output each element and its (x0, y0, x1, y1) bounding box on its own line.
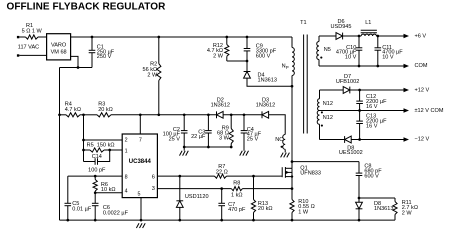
wire N12 to D8 (320, 139, 345, 141)
node C12-C13 junction (358, 109, 361, 112)
diode D7 (336, 74, 359, 94)
svg-text:COM: COM (415, 63, 428, 69)
svg-text:1 kΩ: 1 kΩ (231, 192, 243, 198)
capacitor C13 (356, 111, 387, 140)
svg-text:1N3612: 1N3612 (211, 103, 230, 109)
terminal -12V (404, 136, 430, 142)
svg-text:10 V: 10 V (382, 55, 394, 61)
wire tap to R3 (84, 114, 98, 116)
svg-text:10 kΩ: 10 kΩ (101, 187, 116, 193)
svg-text:470 pF: 470 pF (228, 207, 246, 213)
svg-text:2: 2 (125, 138, 128, 144)
node N12 upper phase dot (321, 111, 323, 113)
resistor R3 (97, 102, 113, 117)
svg-text:10 V: 10 V (345, 55, 357, 61)
node R12 top (225, 36, 228, 39)
svg-text:20 kΩ: 20 kΩ (258, 206, 273, 212)
svg-text:+6 V: +6 V (415, 34, 427, 40)
svg-text:±12 V COM: ±12 V COM (415, 108, 444, 114)
pin 4 label (125, 188, 128, 194)
wire D7 to +12V (350, 89, 404, 91)
resistor R2 (143, 37, 161, 115)
node source junction (291, 175, 293, 177)
svg-text:4: 4 (125, 188, 128, 194)
bridge rectifier VARO VM 68 (47, 34, 71, 60)
wire pin 7 drop (139, 115, 141, 134)
svg-text:600 V: 600 V (364, 174, 379, 180)
wire R1 left lead (19, 36, 25, 38)
wire D2 to D3 (223, 114, 262, 116)
svg-text:1N3613: 1N3613 (374, 206, 393, 212)
node C10 bottom (358, 65, 361, 68)
resistor R12 (207, 37, 229, 61)
capacitor C1 (89, 37, 115, 68)
capacitor C12 (356, 90, 387, 111)
node C3 bottom (207, 146, 210, 149)
resistor R11 (393, 198, 418, 220)
wire R7 to gate (227, 175, 283, 177)
node R2 top (157, 36, 160, 39)
capacitor C4 (241, 115, 262, 151)
capacitor C6 (92, 193, 129, 220)
svg-text:4.7 kΩ: 4.7 kΩ (65, 107, 81, 113)
diode D2 (211, 98, 230, 119)
transformer core T1 (300, 20, 307, 134)
wire R4 to tap (80, 114, 84, 116)
svg-text:USD1120: USD1120 (185, 194, 209, 200)
svg-text:3: 3 (152, 186, 155, 192)
wire COM line (319, 65, 404, 67)
svg-text:600 V: 600 V (256, 54, 271, 60)
svg-text:T1: T1 (300, 20, 306, 26)
node NC phase dot (281, 146, 283, 148)
resistor R4 (65, 102, 81, 117)
resistor R13 (251, 176, 272, 220)
wire pin 2 (84, 139, 123, 141)
svg-text:5: 5 (138, 191, 141, 197)
node drain-snubber junction (291, 160, 294, 163)
node R5 left junction (82, 149, 85, 152)
op-amp U1 UC3844 box (122, 134, 157, 198)
svg-text:N12: N12 (323, 101, 333, 107)
node source-sense junction (291, 187, 294, 190)
svg-text:8: 8 (125, 175, 128, 181)
resistor R6 (93, 176, 115, 193)
capacitor C14 (84, 150, 110, 173)
svg-text:7: 7 (139, 138, 142, 144)
winding N12 lower (317, 111, 333, 140)
svg-text:2 W: 2 W (402, 210, 413, 216)
pin 3 label (152, 186, 155, 192)
wire drain to C8 (292, 161, 359, 163)
capacitor C7 (218, 189, 246, 221)
svg-text:22 Ω: 22 Ω (216, 170, 228, 176)
transistor Q1 UFN833 (282, 162, 321, 189)
node C12 top (358, 89, 361, 92)
svg-text:VARO: VARO (51, 42, 67, 48)
wire D6 to L1 (343, 35, 362, 37)
capacitor C10 (336, 36, 362, 66)
wire left vertical bus (59, 68, 61, 221)
wire D3 to NC (269, 115, 286, 135)
diode D3 (256, 98, 275, 119)
node N12 lower phase dot (321, 125, 323, 127)
terminal +6V (404, 34, 427, 40)
svg-text:1N3612: 1N3612 (256, 103, 275, 109)
wire R12 bottom link (227, 60, 247, 62)
label 117 VAC (18, 44, 39, 50)
wire D4 to drain (247, 78, 292, 86)
wire +-12V COM line (320, 110, 404, 112)
svg-text:VM 68: VM 68 (51, 50, 67, 56)
node C6 ground (94, 219, 97, 222)
wire drain vertical (291, 76, 293, 168)
node R10 ground (291, 219, 294, 222)
ground under NC (281, 153, 290, 158)
svg-text:P: P (286, 65, 289, 70)
capacitor C2 (163, 115, 188, 147)
ground under C4 (240, 151, 249, 156)
wire ground bus (60, 219, 396, 221)
svg-text:117 VAC: 117 VAC (18, 44, 39, 50)
node C8-D5 junction (358, 197, 361, 200)
svg-text:16 V: 16 V (366, 104, 378, 110)
wire pin 8 (68, 175, 122, 177)
wire divider drop (83, 115, 85, 162)
svg-text:5 Ω 1 W: 5 Ω 1 W (22, 29, 43, 35)
diode USD1120 (176, 176, 208, 220)
resistor R7 (215, 164, 228, 178)
svg-text:UC3844: UC3844 (129, 159, 152, 165)
wire DC+ rail (71, 36, 292, 38)
node divider tap (82, 113, 85, 116)
svg-text:250 V: 250 V (97, 54, 112, 60)
node R5 right junction (108, 149, 111, 152)
wire row to R4 (60, 114, 67, 116)
svg-text:+12 V: +12 V (415, 88, 430, 94)
wire C2 ground stub (183, 147, 185, 151)
svg-text:1 W: 1 W (298, 209, 309, 215)
node C2 bottom (183, 146, 186, 149)
svg-text:R8: R8 (233, 180, 240, 186)
svg-text:UES1002: UES1002 (339, 150, 363, 156)
wire VCC ground bus (184, 146, 231, 148)
wire R3 to D2 (111, 114, 217, 116)
ground under C2 bus (180, 151, 189, 156)
node C9 top (246, 36, 249, 39)
svg-text:N5: N5 (324, 47, 331, 53)
terminal +12V (404, 88, 430, 94)
node clamp-drain junction (291, 85, 294, 88)
terminal +-12V COM (404, 108, 444, 114)
capacitor C5 (65, 176, 92, 220)
svg-text:100 pF: 100 pF (88, 167, 106, 173)
inductor L1 (361, 20, 377, 36)
svg-text:UFN833: UFN833 (300, 171, 321, 177)
node C2 top (183, 113, 186, 116)
node C7 top (220, 187, 223, 190)
svg-text:OFFLINE FLYBACK REGULATOR: OFFLINE FLYBACK REGULATOR (7, 2, 167, 13)
winding Np primary (282, 37, 295, 76)
svg-text:16 V: 16 V (366, 124, 378, 130)
terminal COM (404, 63, 428, 69)
wire pin 1 (110, 149, 123, 151)
wire pin 5 drop (140, 198, 142, 221)
svg-text:2 W: 2 W (213, 53, 224, 59)
wire NC to ground (284, 149, 286, 152)
node bridge negative junction (77, 66, 80, 69)
node C10 top (358, 35, 361, 38)
node VCC-row left junction (58, 113, 61, 116)
svg-text:1: 1 (125, 149, 128, 155)
resistor R5 (84, 142, 115, 152)
node C11 bottom (376, 65, 379, 68)
wire pin 3 line (157, 188, 231, 190)
svg-text:0.0022 µF: 0.0022 µF (103, 210, 129, 216)
winding N5 (317, 36, 331, 66)
wire C9 to D4 (246, 61, 248, 71)
node USD1120 top (178, 175, 181, 178)
node C13 bottom (358, 138, 361, 141)
pin 7 label (139, 138, 142, 144)
capacitor C8 (356, 162, 383, 198)
node C9 bottom junction (246, 60, 249, 63)
svg-text:20 kΩ: 20 kΩ (98, 107, 113, 113)
node N5 phase dot (320, 57, 322, 59)
svg-text:25 V: 25 V (169, 137, 181, 143)
node C7 ground (220, 219, 223, 222)
svg-text:N12: N12 (323, 115, 333, 121)
title OFFLINE FLYBACK REGULATOR (7, 2, 167, 13)
svg-text:25 V: 25 V (247, 137, 259, 143)
svg-text:22 µF: 22 µF (191, 134, 206, 140)
svg-text:0.01 µF: 0.01 µF (72, 206, 92, 212)
node R13 ground (252, 219, 255, 222)
wire AC lower to bridge (19, 54, 46, 56)
node R6-C6 junction (94, 191, 97, 194)
node D5 ground (358, 219, 361, 222)
winding NC (275, 135, 285, 150)
node R9 top (230, 113, 233, 116)
pin 1 label (125, 149, 128, 155)
node C5 ground (66, 219, 69, 222)
svg-text:NC: NC (275, 137, 283, 143)
node AC input terminal lower (17, 54, 19, 56)
svg-text:C14: C14 (92, 154, 102, 160)
wire N12 to D7 (320, 89, 344, 91)
wire bridge negative (71, 56, 78, 67)
pin 5 label (138, 191, 141, 197)
wire L1 to +6V (376, 35, 403, 37)
node R13 top (252, 175, 255, 178)
capacitor C3 (191, 115, 212, 147)
pin 2 label (125, 138, 128, 144)
node C3 top (207, 113, 210, 116)
svg-text:UFB1002: UFB1002 (336, 79, 359, 85)
node R2 bottom junction (157, 113, 160, 116)
wire pin 6 line (157, 175, 214, 177)
diode D8 (339, 136, 363, 156)
node USD1120 ground (178, 219, 181, 222)
node C4 top (243, 113, 246, 116)
diode D5 (356, 198, 394, 220)
node pin5 ground (140, 219, 143, 222)
wire negative bus (60, 67, 93, 69)
node C11 top (376, 35, 379, 38)
node pin2 junction (82, 139, 85, 142)
svg-text:2 W: 2 W (147, 72, 158, 78)
wire R8 to source (243, 188, 293, 190)
wire pin 4 (95, 192, 122, 194)
resistor R1 (22, 23, 43, 39)
winding N12 upper (318, 90, 333, 111)
wire N5 to D6 (319, 35, 336, 37)
resistor R8 (231, 180, 243, 198)
wire R1 to bridge (38, 36, 47, 38)
capacitor C9 (244, 37, 277, 61)
resistor R10 (290, 189, 315, 221)
pin 6 label (152, 175, 155, 181)
diode D6 (331, 19, 352, 40)
capacitor C11 (375, 36, 404, 66)
node pin7 junction (139, 113, 142, 116)
wire D5-R11 top link (359, 197, 395, 199)
ground symbol main (136, 223, 145, 228)
node R6 top junction (94, 175, 97, 178)
svg-text:L1: L1 (365, 20, 371, 26)
node R9 bottom (230, 146, 233, 149)
svg-text:6: 6 (152, 175, 155, 181)
svg-text:−12 V: −12 V (415, 136, 430, 142)
svg-text:1N3613: 1N3613 (258, 78, 277, 84)
pin 8 label (125, 175, 128, 181)
svg-text:3 W: 3 W (219, 136, 230, 142)
wire D8 to -12V (351, 139, 403, 141)
node C1 top (91, 36, 94, 39)
resistor R9 (217, 115, 233, 147)
node AC input terminal upper (17, 36, 19, 38)
diode D4 (244, 72, 277, 84)
svg-text:USD945: USD945 (331, 24, 352, 30)
svg-text:R5 150 kΩ: R5 150 kΩ (87, 142, 115, 148)
